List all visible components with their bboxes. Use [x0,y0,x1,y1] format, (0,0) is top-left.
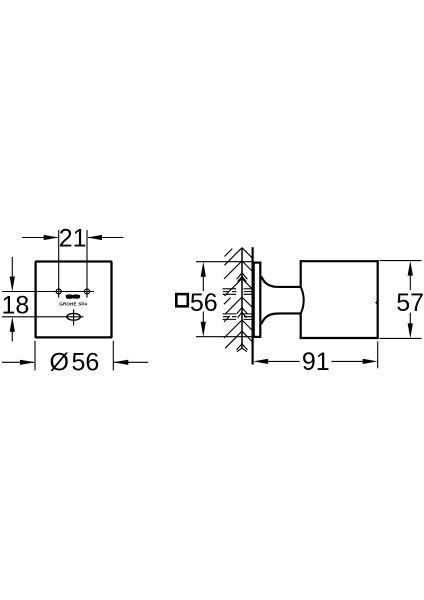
chevron foot C [237,344,248,352]
cylinder (holder body) [301,261,378,338]
dimension 91: right arrow [363,359,378,364]
wire: horizontal centerline through screw holes / 18-dim extension [2,291,94,293]
chevron foot A [237,273,248,282]
square escutcheon plate outline [36,262,112,338]
dimension 57: bottom extension line [380,337,422,339]
knob cone bottom profile [261,313,301,324]
screw hole left [56,289,61,294]
dimension 21: left arrow [22,237,58,239]
hatch peak 3 [225,279,253,297]
dimension sq56: top arrow [201,262,206,277]
svg-text:57: 57 [396,289,424,317]
dimension 18: upper arrow [11,257,13,279]
dimension D56: right arrow [114,361,148,363]
dimension D56: left extension line [34,341,36,371]
svg-text:18: 18 [2,291,30,319]
wall back hatch boundary line [241,248,243,349]
lower wall anchor (hidden screw lines) [223,314,253,320]
dimension D56: right extension line [112,341,114,371]
dimension 91: left arrow [253,359,268,364]
dimension 57: top arrow [408,261,413,276]
wire: right screw-hole centerline / 21-dim extension line [86,230,88,298]
cylinder bore arc [301,287,304,314]
dimension sq56: top extension line [196,261,252,263]
knob cone top profile [261,276,301,287]
lower fixing slot (ellipse) [67,313,81,320]
dimension 91: right extension line [377,342,379,369]
hatch fragment lower-left [224,316,230,322]
wire: vertical centerline of lower fixing [73,309,75,325]
dimension 57: top extension line [380,260,422,262]
hatch fragment mid-left [224,298,231,305]
dimension sq56: bottom extension line [196,336,252,338]
hatch peak 4 [225,297,252,314]
wire: left screw-hole centerline / 21-dim extension line [58,230,60,298]
svg-text:56: 56 [72,349,100,377]
hatch fragment top-left [225,249,233,257]
dimension sq56: bottom arrow [201,322,206,337]
wall surface line / 91-dim left extension [252,247,254,364]
dimension D56: left arrow [2,361,34,363]
notch on cylinder right edge [375,300,378,304]
dimension 57: bottom arrow [408,323,413,338]
hatch peak 1 [225,248,253,266]
hatch peak 6 [225,331,253,348]
svg-text:Ø: Ø [50,349,69,377]
hatch peak 2 [224,261,253,279]
svg-text:GROHE SPA: GROHE SPA [59,302,88,307]
GROHE logo blob [66,294,81,299]
svg-text:91: 91 [302,348,330,376]
wire: horizontal centerline through lower fixing / 18-dim extension [2,316,84,318]
wall hatching [224,248,253,352]
flange (wall plate, side view) [254,263,261,337]
dimension 18: lower arrow [11,329,13,342]
chevron foot B [237,308,248,318]
dimension 21: right arrow [88,237,123,239]
svg-text:56: 56 [190,289,218,317]
upper wall anchor (hidden screw lines) [223,289,253,295]
screw hole right [85,289,90,294]
dimension sq56: square symbol [176,294,188,306]
svg-text:21: 21 [59,225,87,253]
hatch peak 5 [224,320,252,338]
